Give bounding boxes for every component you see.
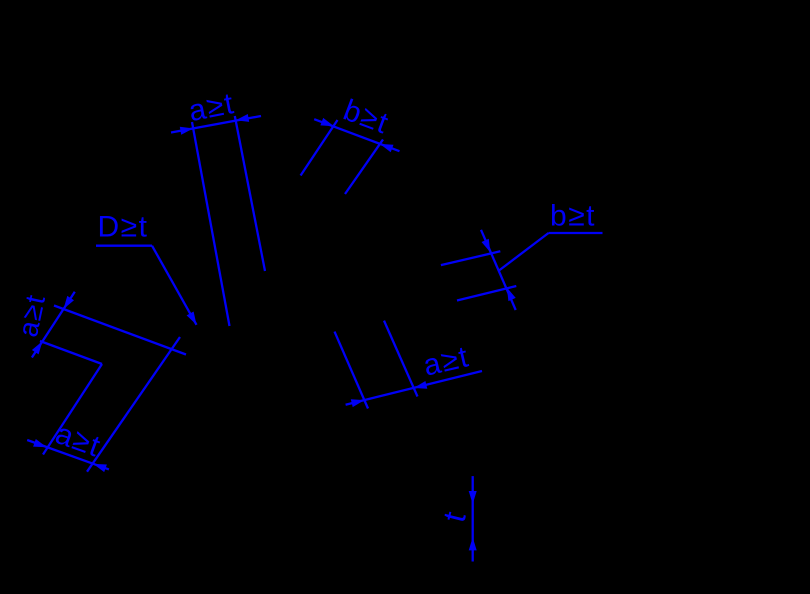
arrowhead left, top-center a≥t [180, 127, 194, 135]
wire: elbow extension segment 1 [40, 341, 102, 364]
arrowhead right, bottom-left a≥t [93, 464, 107, 472]
wire: extension line 1, top-center a≥t [192, 122, 230, 326]
wire: extension line 2, top-center a≥t [235, 116, 265, 271]
arrowhead right, center a≥t [414, 381, 428, 389]
svg-text:b≥t: b≥t [550, 199, 596, 232]
wire: leader line, D≥t [152, 246, 197, 325]
wire: leader shelf, D≥t [96, 245, 152, 247]
arrowhead upper, right b≥t [482, 239, 491, 253]
wire: extension line 2, center a≥t [384, 321, 418, 397]
wire: leader line, right b≥t [499, 233, 549, 271]
wire: dimension line, thickness t [472, 476, 474, 561]
wire: extension line 2, top-right b≥t [345, 140, 383, 195]
wire: dimension line, top-right b≥t [314, 119, 399, 151]
wire: dimension line, bottom-left a≥t [27, 440, 109, 469]
wire: leader shelf, right b≥t [549, 232, 603, 234]
arrowhead left, top-right b≥t [320, 118, 334, 126]
arrowhead left, center a≥t [351, 399, 365, 407]
arrowhead left, bottom-left a≥t [33, 439, 47, 447]
arrowhead down, thickness t [469, 491, 477, 504]
wire: extension line 1, center a≥t [335, 332, 369, 409]
wire: extension line top, left a≥t [54, 306, 186, 355]
wire: long diagonal extension line [87, 337, 180, 472]
wire: elbow extension segment 2 [43, 364, 102, 455]
arrowhead upper, left a≥t [64, 296, 75, 309]
arrowhead lower, right b≥t [507, 288, 516, 302]
wire: extension line 1, top-right b≥t [301, 120, 338, 176]
arrowhead up, thickness t [469, 537, 477, 550]
arrowhead, D≥t leader [187, 312, 197, 325]
arrowhead right, top-center a≥t [236, 114, 250, 122]
wire: extension line A, right b≥t [441, 251, 500, 265]
arrowhead right, top-right b≥t [380, 144, 394, 152]
wire: dimension line, right b≥t [481, 230, 516, 310]
svg-text:D≥t: D≥t [98, 211, 149, 244]
wire: dimension line, center a≥t [346, 371, 482, 405]
wire: dimension line, left a≥t [32, 292, 75, 358]
wire: dimension line, top-center a≥t [171, 116, 261, 133]
wire: extension line B, right b≥t [457, 286, 516, 301]
arrowhead lower, left a≥t [32, 341, 43, 354]
